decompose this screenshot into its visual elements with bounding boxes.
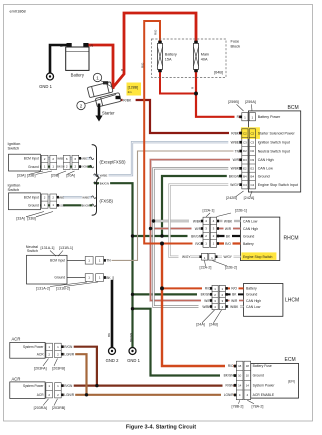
- svg-text:Switch: Switch: [8, 187, 20, 192]
- ACR front: [10, 336, 61, 358]
- svg-text:System Power: System Power: [23, 345, 44, 349]
- svg-text:[78B-2]: [78B-2]: [232, 405, 244, 409]
- svg-text:[22B-2]: [22B-2]: [225, 266, 237, 270]
- svg-text:W/GY: W/GY: [182, 255, 191, 259]
- svg-text:Ground: Ground: [253, 374, 264, 378]
- svg-text:Main: Main: [201, 53, 209, 57]
- svg-text:C4: C4: [243, 183, 247, 187]
- BCM row labels: [258, 115, 298, 187]
- module BCM: [239, 105, 300, 192]
- svg-text:BCM Input: BCM Input: [50, 259, 65, 263]
- wire R starter post up to main fuse: [112, 13, 196, 89]
- svg-text:GND 1: GND 1: [39, 84, 52, 89]
- connector label arrows: [26, 104, 254, 405]
- svg-text:BK/GN: BK/GN: [82, 204, 90, 207]
- fuse block dashed outline: [152, 39, 227, 78]
- ground GND 2 (bottom): [106, 348, 119, 364]
- svg-text:Battery: Battery: [165, 53, 177, 57]
- svg-text:2: 2: [80, 103, 83, 108]
- ACR wire labels: [64, 344, 75, 397]
- svg-text:LHCM: LHCM: [285, 298, 299, 304]
- module LHCM: [212, 284, 299, 317]
- highlight starter solenoid power pins: [241, 127, 260, 139]
- svg-text:R/GN: R/GN: [226, 383, 235, 387]
- svg-text:[131B-1]: [131B-1]: [59, 246, 73, 250]
- svg-text:Starter: Starter: [102, 111, 115, 116]
- svg-text:Battery: Battery: [246, 287, 257, 291]
- wire W/GY engine stop BCM to RHCM: [170, 185, 243, 257]
- module RHCM: [202, 217, 299, 260]
- svg-text:Switch: Switch: [27, 249, 38, 253]
- svg-text:[33A]: [33A]: [16, 217, 25, 221]
- svg-text:System Power: System Power: [23, 384, 44, 388]
- wire W/BE ign switch 1 segment: [40, 157, 91, 159]
- label R/BK at solenoid: [123, 98, 136, 103]
- svg-text:[259A]: [259A]: [245, 100, 256, 104]
- svg-text:System Power: System Power: [253, 383, 276, 387]
- wire stub W/GY engine stop right: [215, 254, 240, 259]
- svg-text:W/R: W/R: [231, 299, 238, 303]
- svg-text:Figure 3-4. Starting Circuit: Figure 3-4. Starting Circuit: [126, 425, 196, 431]
- svg-text:E2: E2: [251, 167, 255, 171]
- wire R/BK starter solenoid to BCM: [118, 100, 242, 133]
- wire stub W/R RHCM right: [217, 226, 241, 231]
- ACR rear: [10, 376, 61, 398]
- svg-text:LGN/R: LGN/R: [64, 393, 74, 397]
- wire stub R/O LHCM right: [225, 286, 243, 291]
- svg-text:R/O: R/O: [231, 287, 237, 291]
- wire battery positive R to starter post: [88, 45, 113, 89]
- svg-text:R/BK: R/BK: [231, 131, 239, 135]
- twisted pair squiggles: [89, 157, 98, 207]
- svg-text:Ground: Ground: [246, 293, 257, 297]
- wire stub W/R LHCM right: [225, 298, 243, 303]
- LHCM left wire labels: [197, 286, 211, 309]
- svg-text:1: 1: [96, 75, 99, 80]
- svg-text:[22A-2]: [22A-2]: [200, 266, 212, 270]
- svg-text:CAN Low: CAN Low: [246, 305, 261, 309]
- svg-text:40A: 40A: [201, 57, 208, 61]
- svg-text:Ground: Ground: [258, 174, 270, 178]
- svg-text:BK/GN: BK/GN: [57, 166, 65, 169]
- svg-text:Battery: Battery: [71, 73, 85, 78]
- BCM wire nubs: [239, 116, 242, 187]
- svg-text:R/O: R/O: [154, 29, 158, 35]
- svg-text:CAN High: CAN High: [246, 299, 261, 303]
- svg-text:CAN High: CAN High: [258, 158, 274, 162]
- wire R/GN ACR system power to ECM: [61, 347, 97, 386]
- connector 24 pins: [212, 285, 225, 309]
- wire W/BK CAN low BCM to RHCM to LHCM: [154, 168, 243, 306]
- rotated tiny wire labels: [107, 29, 194, 342]
- svg-text:R/O: R/O: [225, 242, 231, 246]
- wire W/BE ignition switch input to BCM: [94, 142, 242, 175]
- svg-text:LGN/R: LGN/R: [224, 393, 234, 397]
- callout 2: [77, 95, 116, 110]
- svg-text:CAN High: CAN High: [243, 227, 258, 231]
- wire R/O branch to LHCM battery: [162, 287, 213, 289]
- svg-text:Switch: Switch: [8, 146, 20, 151]
- wire LGN/R ACR enable to ECM: [61, 354, 86, 395]
- svg-text:W/BE: W/BE: [231, 141, 240, 145]
- bracket grouping ignition switch variants: [92, 145, 101, 216]
- svg-text:[203FB]: [203FB]: [52, 366, 65, 370]
- connector 128B highlight: [127, 83, 142, 96]
- svg-text:14: 14: [238, 383, 242, 387]
- svg-text:W/BE: W/BE: [57, 156, 64, 160]
- svg-text:[131A-1]: [131A-1]: [41, 246, 55, 250]
- svg-text:Battery: Battery: [243, 242, 254, 246]
- wire stub W/BK RHCM right: [217, 219, 241, 224]
- svg-text:Battery Power: Battery Power: [258, 115, 281, 119]
- svg-text:B4: B4: [251, 174, 255, 178]
- svg-text:[203FA]: [203FA]: [34, 366, 47, 370]
- svg-text:W/R: W/R: [195, 227, 202, 231]
- svg-text:[128B]: [128B]: [128, 86, 138, 90]
- battery: [60, 43, 94, 78]
- wire BK/GN BCM ground riser: [162, 176, 242, 236]
- svg-text:W/BE: W/BE: [100, 174, 108, 178]
- svg-text:Block: Block: [231, 43, 241, 48]
- wire BK/GN ignition ground stub down main vertical to GND 1: [94, 183, 133, 347]
- svg-text:[24B]: [24B]: [209, 322, 218, 326]
- svg-text:D3: D3: [250, 158, 254, 162]
- svg-text:(ExceptFXSB): (ExceptFXSB): [100, 160, 127, 165]
- wire W/R CAN high BCM to RHCM to LHCM: [151, 160, 243, 301]
- svg-text:[64B]: [64B]: [214, 71, 223, 75]
- fuse Battery 15A: [158, 41, 177, 73]
- svg-text:BK: BK: [107, 333, 111, 337]
- svg-text:BK/GN: BK/GN: [191, 234, 202, 238]
- svg-text:TN: TN: [106, 259, 111, 263]
- svg-text:[33B]: [33B]: [27, 217, 36, 221]
- wire BK/GN RHCM ground row: [133, 235, 204, 237]
- svg-text:R/GN: R/GN: [64, 345, 73, 349]
- module ECM: [234, 357, 299, 400]
- svg-text:[22A-1]: [22A-1]: [203, 209, 215, 213]
- neutral switch wire labels: [106, 258, 112, 263]
- svg-text:BK/GN: BK/GN: [129, 333, 133, 342]
- svg-text:ECM: ECM: [285, 357, 296, 363]
- svg-text:ACR: ACR: [12, 336, 21, 341]
- svg-text:BK/GN: BK/GN: [100, 182, 109, 186]
- svg-text:C3: C3: [243, 140, 247, 144]
- svg-text:Engine Stop Switch: Engine Stop Switch: [243, 255, 273, 259]
- ground GND 1 (bottom): [127, 348, 140, 364]
- svg-text:C2: C2: [243, 131, 247, 135]
- svg-text:[24A]: [24A]: [196, 322, 205, 326]
- fuse Main 40A: [194, 41, 210, 73]
- svg-text:W/R: W/R: [225, 227, 232, 231]
- wire stub BK RHCM right: [217, 234, 241, 239]
- ground GND 1 (battery): [39, 73, 53, 89]
- connector 22-1 pins: [203, 217, 217, 247]
- svg-text:GND 1: GND 1: [127, 358, 140, 363]
- wire stub R/O RHCM right: [217, 241, 241, 246]
- svg-text:10: 10: [246, 374, 250, 378]
- svg-text:[131A-2]: [131A-2]: [36, 287, 50, 291]
- small wire terminal nubs: [57, 157, 228, 396]
- svg-text:W/BE: W/BE: [82, 195, 89, 199]
- svg-text:W/BE: W/BE: [80, 156, 87, 160]
- svg-text:2m: 2m: [128, 90, 133, 94]
- svg-text:18: 18: [238, 364, 242, 368]
- svg-text:BK/GN: BK/GN: [201, 293, 212, 297]
- wire BK/GN branch to ECM ground: [133, 309, 238, 376]
- svg-text:B4: B4: [243, 174, 247, 178]
- svg-text:[33A]: [33A]: [17, 174, 26, 178]
- svg-text:Battery Fuse: Battery Fuse: [253, 364, 272, 368]
- wire BK neutral switch ground to GND 2: [104, 278, 112, 348]
- svg-text:Ground: Ground: [28, 204, 39, 208]
- svg-text:ACR: ACR: [37, 353, 44, 357]
- svg-text:[203RB]: [203RB]: [52, 406, 65, 410]
- BCM left wire labels: [227, 115, 240, 187]
- svg-text:Ignition Switch Input: Ignition Switch Input: [258, 141, 290, 145]
- svg-text:14: 14: [246, 383, 250, 387]
- svg-text:E2: E2: [243, 167, 247, 171]
- svg-text:GND 2: GND 2: [106, 358, 119, 363]
- svg-text:(EFI): (EFI): [288, 380, 295, 384]
- svg-text:[33B]: [33B]: [27, 174, 36, 178]
- connector labels: [16, 100, 263, 410]
- ignition switch 2 (FXSB): [8, 183, 57, 210]
- svg-text:R/O: R/O: [228, 364, 234, 368]
- svg-text:D2: D2: [243, 149, 247, 153]
- svg-text:W/BK: W/BK: [230, 305, 239, 309]
- wire battery negative BK to GND 1: [50, 45, 69, 73]
- wire W/BE ign switch 2 segment: [40, 196, 92, 198]
- junction dots: [85, 92, 198, 397]
- wire R/O riser RHCM to LHCM to ECM battery fuse: [162, 244, 237, 367]
- svg-text:Starter Solenoid Power: Starter Solenoid Power: [258, 131, 296, 135]
- svg-text:[259B]: [259B]: [228, 100, 239, 104]
- svg-text:BCM Input: BCM Input: [24, 157, 39, 161]
- wire stub W/BK LHCM right: [225, 304, 243, 309]
- svg-text:R/O: R/O: [195, 242, 201, 246]
- svg-text:CAN Low: CAN Low: [243, 219, 258, 223]
- wire BK/GN branch LHCM ground: [133, 293, 213, 295]
- svg-text:[242A]: [242A]: [244, 196, 255, 200]
- svg-text:[203RA]: [203RA]: [34, 406, 47, 410]
- callout 1: [93, 73, 112, 87]
- svg-text:C2: C2: [250, 131, 254, 135]
- svg-text:10: 10: [238, 374, 242, 378]
- BCM pin ids: [243, 131, 254, 187]
- svg-text:[131B-2]: [131B-2]: [56, 287, 70, 291]
- ignition switch 1 (Except FXSB): [8, 141, 79, 171]
- svg-text:W/BK: W/BK: [231, 167, 240, 171]
- svg-text:TN: TN: [235, 149, 240, 153]
- neutral switch: [26, 245, 104, 284]
- svg-text:Ground: Ground: [243, 234, 254, 238]
- svg-text:C4: C4: [250, 183, 254, 187]
- svg-text:BK: BK: [60, 44, 65, 48]
- svg-text:W/BK: W/BK: [193, 219, 202, 223]
- connector 242 pin strips: [242, 129, 256, 189]
- svg-text:(FXSB): (FXSB): [100, 199, 114, 204]
- svg-text:[22B-1]: [22B-1]: [235, 209, 247, 213]
- svg-text:D2: D2: [250, 149, 254, 153]
- wire BK/GN ign switch 1 segment: [40, 166, 91, 168]
- svg-text:ACR ENABLE: ACR ENABLE: [253, 393, 275, 397]
- svg-text:BK/GN: BK/GN: [229, 174, 240, 178]
- svg-text:[78A-2]: [78A-2]: [252, 405, 264, 409]
- connector 22-2 pins: [202, 253, 216, 260]
- svg-text:em01868: em01868: [10, 9, 26, 14]
- svg-text:CAN Low: CAN Low: [258, 167, 274, 171]
- connector 259 pins: [242, 113, 248, 121]
- wire TN neutral switch to BCM: [104, 151, 242, 260]
- wire R/O battery fuse top to long feed: [144, 21, 203, 244]
- svg-text:Ground: Ground: [28, 165, 39, 169]
- wire stub BK LHCM right: [225, 292, 243, 297]
- wire BK/GN ign switch 2 segment: [40, 204, 92, 206]
- wire R main fuse bottom to BCM battery power: [196, 71, 242, 117]
- svg-text:W/R: W/R: [233, 158, 240, 162]
- svg-text:Ground: Ground: [54, 276, 65, 280]
- svg-text:LGN/R: LGN/R: [64, 353, 74, 357]
- ECM left wire labels: [220, 364, 234, 398]
- svg-text:15A: 15A: [165, 57, 172, 61]
- RHCM left wire labels: [179, 219, 202, 259]
- svg-text:ACR: ACR: [12, 376, 21, 381]
- svg-text:BCM Input: BCM Input: [24, 196, 39, 200]
- svg-text:D3: D3: [243, 158, 247, 162]
- starter ground arrow: [95, 104, 102, 122]
- svg-text:[242B]: [242B]: [226, 196, 237, 200]
- svg-text:R/O: R/O: [140, 62, 144, 68]
- svg-text:Neutral Switch Input: Neutral Switch Input: [258, 149, 290, 153]
- svg-text:W/GY: W/GY: [230, 183, 240, 187]
- wire R battery fuse bottom to junction: [160, 71, 196, 94]
- starter pictorial: [87, 81, 121, 107]
- svg-text:ACR: ACR: [37, 393, 44, 397]
- svg-text:R/GN: R/GN: [64, 384, 73, 388]
- svg-text:W/GY: W/GY: [223, 255, 232, 259]
- svg-text:Engine Stop Switch Input: Engine Stop Switch Input: [258, 183, 298, 187]
- svg-text:BK/GN: BK/GN: [224, 374, 235, 378]
- svg-text:18: 18: [246, 364, 250, 368]
- svg-text:RHCM: RHCM: [284, 236, 299, 242]
- svg-text:R/BK: R/BK: [123, 99, 132, 103]
- svg-text:W/BK: W/BK: [224, 219, 233, 223]
- svg-text:C3: C3: [250, 140, 254, 144]
- connector 78-2 pins: [236, 361, 250, 400]
- ignition wire labels: [57, 156, 90, 207]
- svg-text:BCM: BCM: [288, 105, 299, 111]
